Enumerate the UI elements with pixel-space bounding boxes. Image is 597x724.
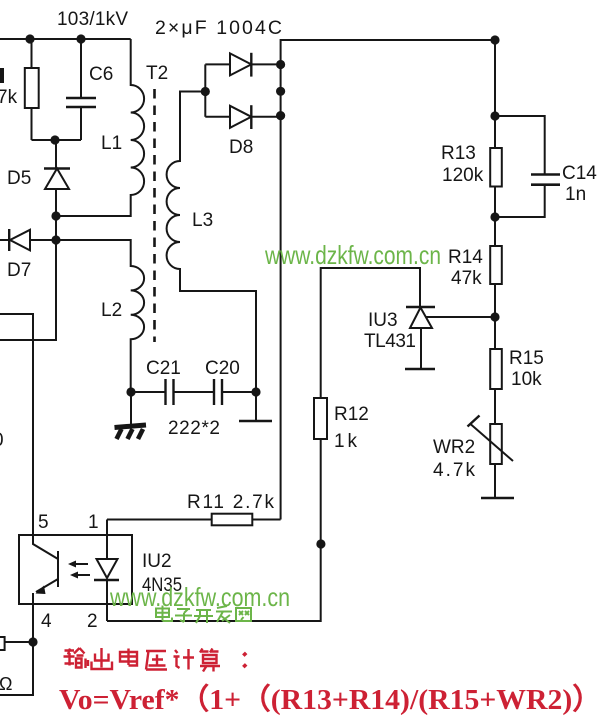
inductor L1 bbox=[56, 39, 144, 216]
node D7 / L2 bbox=[51, 235, 60, 244]
label 1n bbox=[565, 184, 586, 205]
ground (chassis) bbox=[115, 392, 147, 439]
label pin 5 bbox=[38, 512, 49, 533]
U2 pin 2 stub bbox=[106, 604, 108, 621]
U2 pin 4 wire bbox=[0, 604, 33, 695]
terminal bar below C20 node bbox=[239, 392, 272, 421]
svg-text:C21: C21 bbox=[146, 358, 181, 379]
capacitor C14 bbox=[495, 116, 560, 217]
svg-text:10k: 10k bbox=[511, 369, 542, 390]
U2 light arrows bbox=[68, 561, 90, 579]
resistor (partial) bottom-left bbox=[0, 637, 33, 650]
label 7k bbox=[0, 68, 18, 108]
svg-text:www.dzkfw.com.cn: www.dzkfw.com.cn bbox=[264, 240, 441, 270]
svg-text:0: 0 bbox=[0, 430, 4, 451]
svg-text:T2: T2 bbox=[146, 63, 168, 84]
label 10k bbox=[511, 369, 542, 390]
wire left edge to U2 pin 5 bbox=[0, 314, 33, 535]
label 120k bbox=[442, 165, 484, 186]
label 222*2 bbox=[168, 418, 220, 439]
label 103/1kV bbox=[57, 9, 128, 30]
label 1k bbox=[334, 431, 358, 452]
node R14/R15/U3 ref bbox=[490, 312, 499, 321]
inductor L3 bbox=[167, 92, 256, 393]
node top rail C6 bbox=[76, 34, 85, 43]
U2 phototransistor bbox=[33, 535, 58, 604]
node R12 bottom bbox=[316, 539, 325, 548]
label pin 4 bbox=[41, 611, 52, 632]
svg-text:R14: R14 bbox=[448, 247, 483, 268]
wire R15 to WR2 bbox=[494, 389, 496, 424]
node rail D8b bbox=[276, 111, 285, 120]
resistor R14 bbox=[490, 246, 502, 284]
wire bottom rail of snubber bbox=[32, 139, 82, 141]
label 4N35 bbox=[142, 575, 182, 596]
svg-text:D8: D8 bbox=[229, 137, 253, 158]
label D5 bbox=[7, 168, 31, 189]
svg-text:2: 2 bbox=[87, 611, 98, 632]
label IU2 bbox=[142, 551, 172, 572]
svg-text:IU2: IU2 bbox=[142, 551, 172, 572]
svg-text:www.dzkfw.com.cn: www.dzkfw.com.cn bbox=[109, 582, 290, 612]
label R12 bbox=[334, 404, 369, 425]
svg-text:5: 5 bbox=[38, 512, 49, 533]
diode D5 bbox=[44, 140, 70, 216]
label 47k bbox=[451, 268, 482, 289]
svg-text:R12: R12 bbox=[334, 404, 369, 425]
label L3 bbox=[192, 210, 213, 231]
svg-text:C14: C14 bbox=[562, 163, 597, 184]
wire D8 anode link bbox=[204, 64, 206, 116]
label R14 bbox=[448, 247, 483, 268]
resistor R15 bbox=[490, 349, 502, 389]
node C14 top branch bbox=[490, 111, 499, 120]
wire right column top bbox=[494, 40, 496, 148]
svg-text:L3: L3 bbox=[192, 210, 213, 231]
label pin 1 bbox=[88, 512, 99, 533]
capacitor C6 bbox=[66, 39, 96, 140]
label L2 bbox=[101, 300, 122, 321]
svg-text:7k: 7k bbox=[0, 87, 18, 108]
label L1 bbox=[101, 133, 122, 154]
label C20 bbox=[205, 358, 240, 379]
label IU3 bbox=[368, 310, 398, 331]
svg-text:C6: C6 bbox=[89, 64, 113, 85]
node D8 anodes / L3 bbox=[201, 87, 210, 96]
diode D7 bbox=[0, 229, 56, 251]
label WR2 bbox=[433, 437, 475, 458]
svg-text:D7: D7 bbox=[7, 260, 31, 281]
svg-text:222*2: 222*2 bbox=[168, 418, 220, 439]
output formula (red) bbox=[59, 683, 597, 716]
svg-text:4: 4 bbox=[41, 611, 52, 632]
diode D8 upper bbox=[205, 53, 280, 77]
diode D8 lower bbox=[205, 105, 280, 129]
node rail mid bbox=[276, 87, 285, 96]
svg-text:1: 1 bbox=[88, 512, 99, 533]
svg-text:C20: C20 bbox=[205, 358, 240, 379]
node R13/R14/C14 bbox=[490, 212, 499, 221]
svg-text:47k: 47k bbox=[451, 268, 482, 289]
node L2 / C21 / ground bbox=[126, 387, 135, 396]
label C6 bbox=[89, 64, 113, 85]
optocoupler U2 box bbox=[19, 535, 132, 604]
wire C21 to C20 bbox=[174, 391, 215, 393]
svg-text:R11 2.7k: R11 2.7k bbox=[187, 492, 275, 513]
label D8 bbox=[229, 137, 253, 158]
label pin 2 bbox=[87, 611, 98, 632]
label C14 bbox=[562, 163, 597, 184]
U2 LED bbox=[94, 535, 119, 604]
watermark dianzi kaifa wang (green hanzi) bbox=[156, 606, 251, 624]
label TL431 bbox=[364, 331, 416, 352]
svg-text:L2: L2 bbox=[101, 300, 122, 321]
node snubber bottom bbox=[50, 135, 59, 144]
capacitor C20 bbox=[214, 379, 256, 405]
potentiometer WR2 bbox=[468, 416, 514, 465]
resistor R11 bbox=[107, 514, 281, 535]
svg-text:120k: 120k bbox=[442, 165, 484, 186]
svg-text:Vo=Vref*（1+（(R13+R14)/(R15+WR2: Vo=Vref*（1+（(R13+R14)/(R15+WR2)） bbox=[59, 683, 597, 716]
watermark www.dzkfw.com.cn top bbox=[264, 240, 441, 270]
wire D5-D7 column to left edge bbox=[0, 216, 56, 340]
wire R14 to R15 bbox=[494, 284, 496, 349]
label 0 partial bbox=[0, 430, 4, 451]
label R11 2.7k bbox=[187, 492, 275, 513]
label D7 bbox=[7, 260, 31, 281]
wire top-left rail bbox=[0, 38, 131, 40]
wire output rail bbox=[281, 40, 495, 520]
node rail D8a bbox=[276, 60, 285, 69]
shunt regulator U3 TL431 bbox=[321, 268, 495, 398]
transformer T2 core bbox=[153, 89, 156, 342]
node top rail left bbox=[25, 34, 34, 43]
label ohm bbox=[0, 674, 12, 694]
resistor R13 bbox=[490, 148, 502, 187]
svg-text:WR2: WR2 bbox=[433, 437, 475, 458]
svg-text:R13: R13 bbox=[441, 143, 476, 164]
svg-text:TL431: TL431 bbox=[364, 331, 416, 352]
label C21 bbox=[146, 358, 181, 379]
label 4.7k bbox=[433, 460, 476, 481]
svg-text:2×μF 1004C: 2×μF 1004C bbox=[155, 17, 282, 39]
svg-text:L1: L1 bbox=[101, 133, 122, 154]
label 2xuF 1004C bbox=[155, 17, 282, 39]
resistor R12 bbox=[107, 398, 327, 621]
node D5 anode / L1 bbox=[51, 211, 60, 220]
inductor L2 bbox=[56, 240, 144, 392]
node C20 right bbox=[251, 387, 260, 396]
wire WR2 to bottom bar bbox=[481, 464, 514, 498]
svg-text:IU3: IU3 bbox=[368, 310, 398, 331]
resistor (partial) 47k top-left bbox=[25, 39, 39, 140]
node pin 4 bbox=[28, 637, 37, 646]
svg-text:R15: R15 bbox=[509, 348, 544, 369]
svg-text:103/1kV: 103/1kV bbox=[57, 9, 128, 30]
label R13 bbox=[441, 143, 476, 164]
svg-text:4.7k: 4.7k bbox=[433, 460, 476, 481]
label T2 bbox=[146, 63, 168, 84]
output formula title (red hanzi) bbox=[64, 648, 247, 672]
svg-text:Ω: Ω bbox=[0, 674, 12, 694]
svg-text:D5: D5 bbox=[7, 168, 31, 189]
wire R13 to R14 bbox=[494, 187, 496, 247]
svg-text:1n: 1n bbox=[565, 184, 586, 205]
capacitor C21 bbox=[131, 379, 174, 405]
label R15 bbox=[509, 348, 544, 369]
node top right corner bbox=[490, 35, 499, 44]
watermark www.dzkfw.com.cn bottom bbox=[109, 582, 290, 612]
